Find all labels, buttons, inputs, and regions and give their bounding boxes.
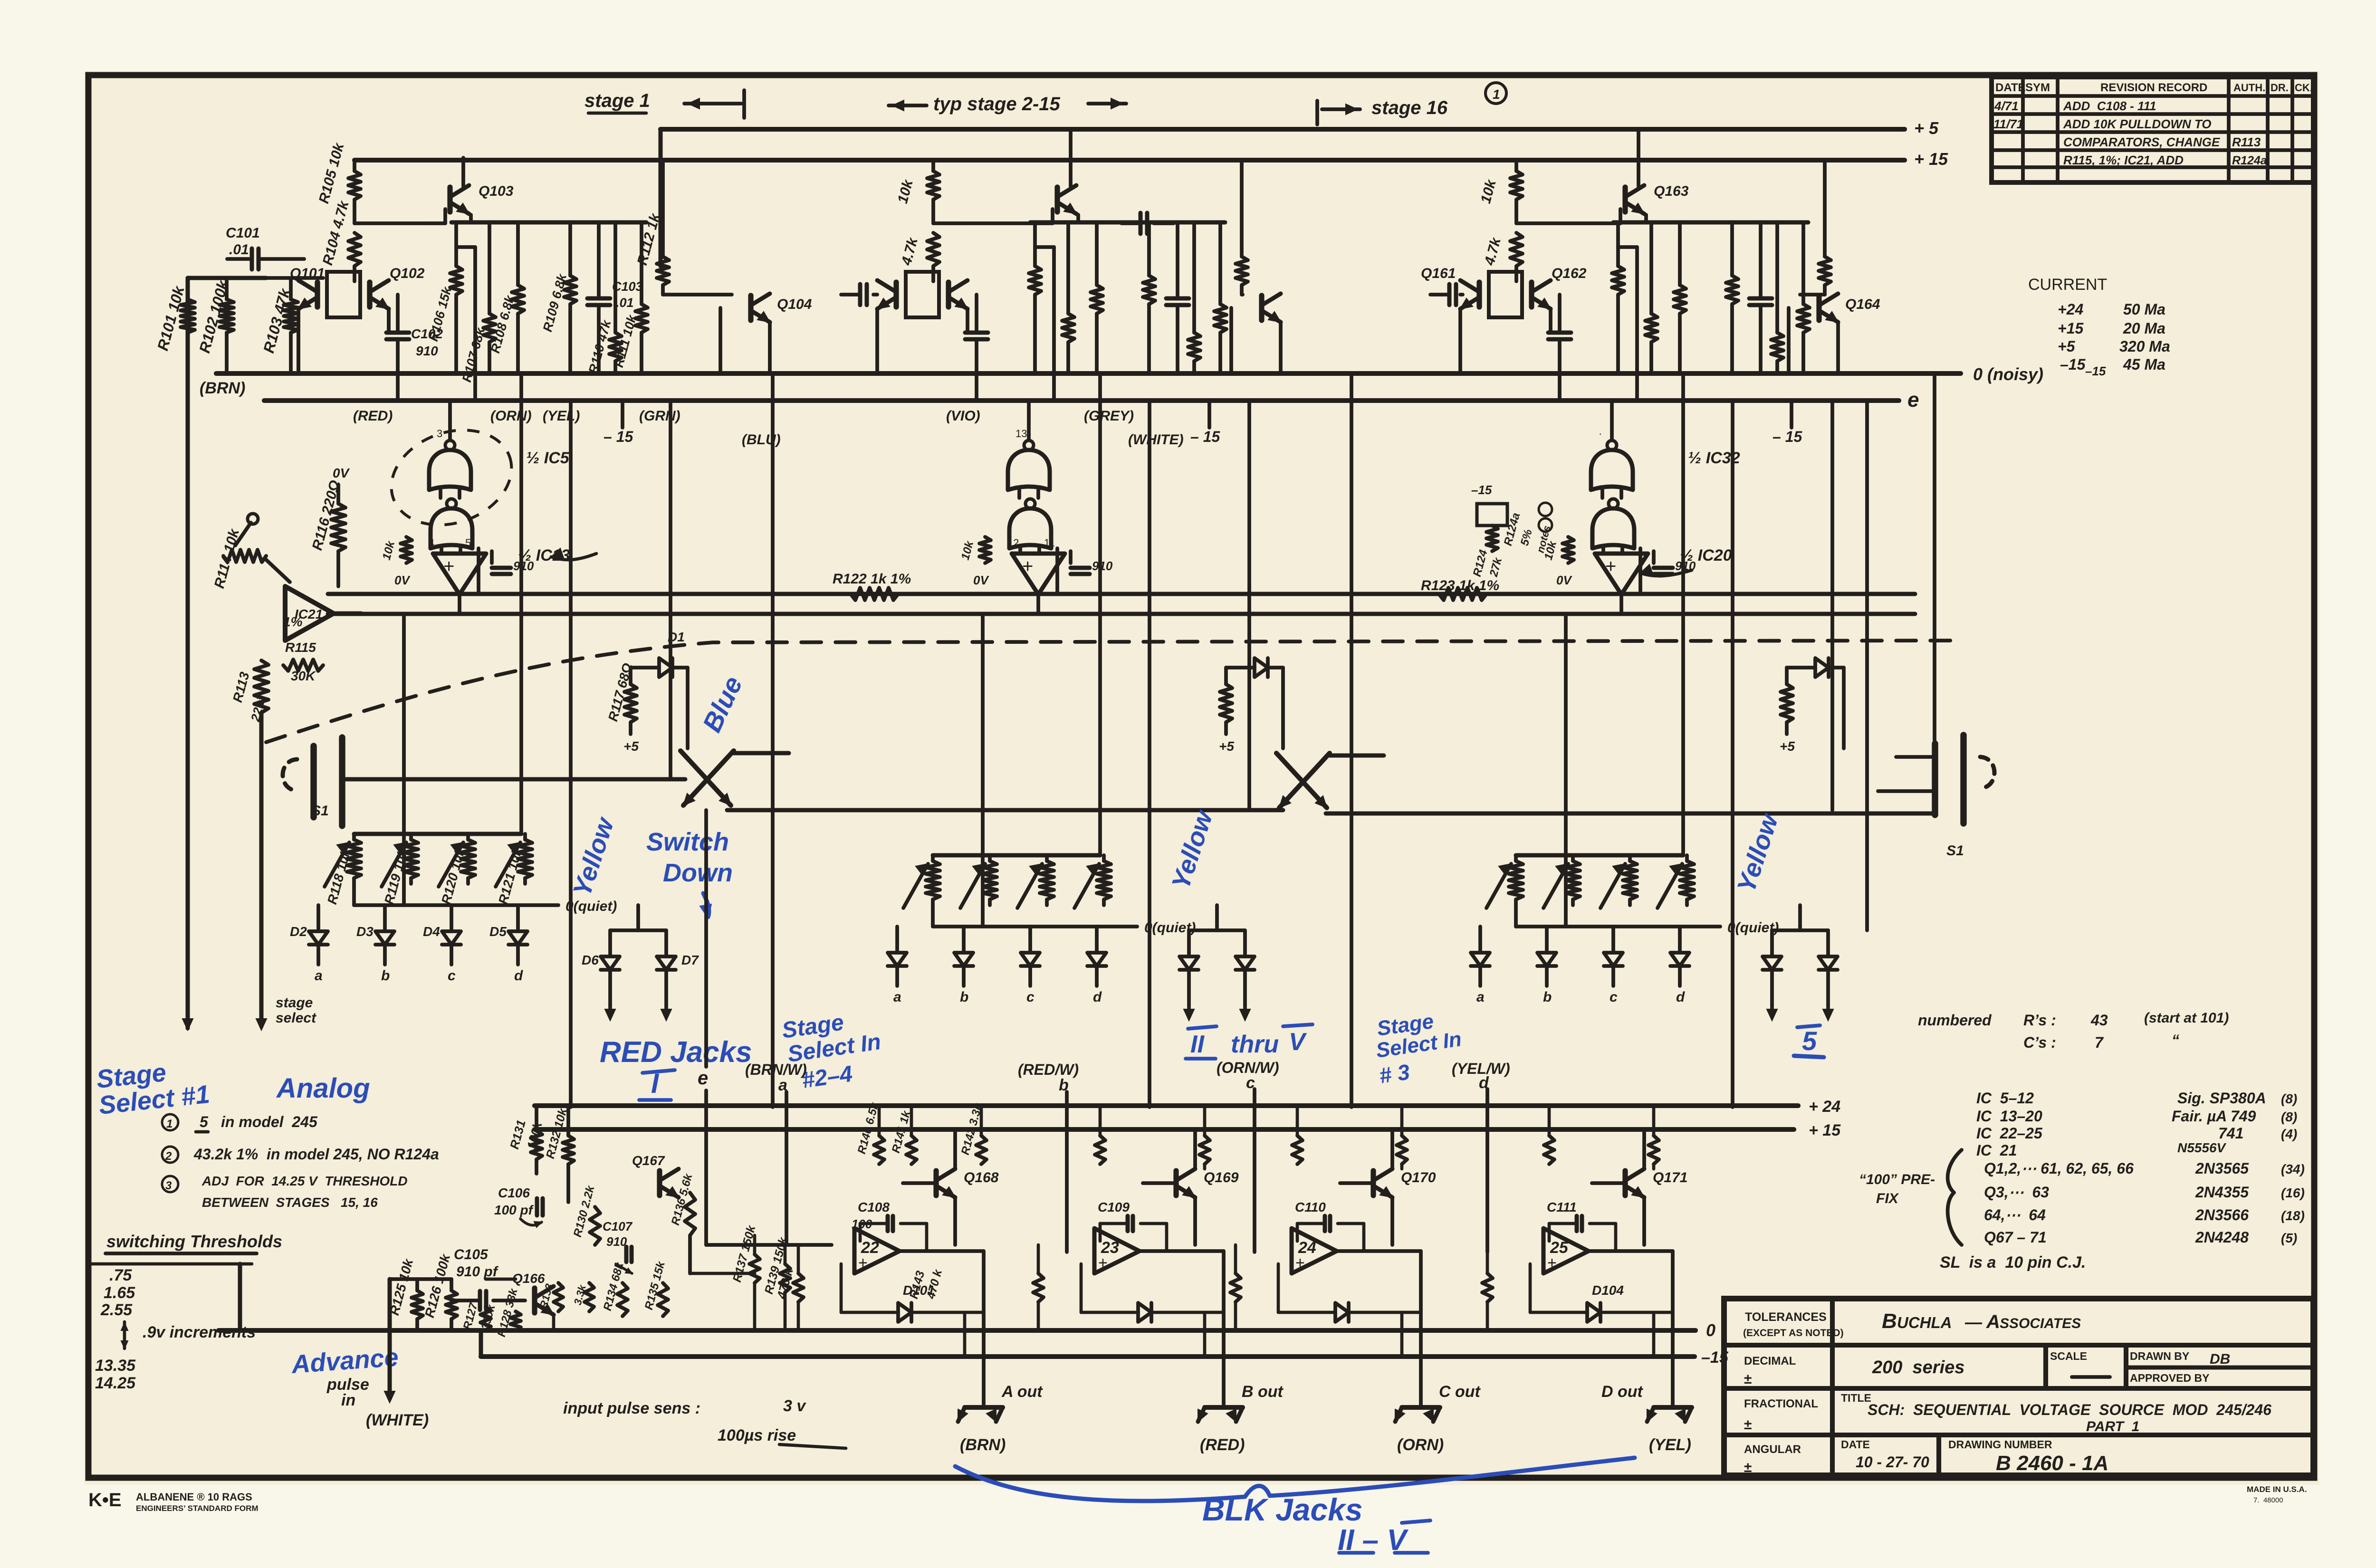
- svg-text:stage 16: stage 16: [1371, 97, 1448, 118]
- svg-text:30K: 30K: [291, 669, 316, 683]
- resistor input channel D: [1482, 1245, 1493, 1330]
- label -15 stage2: [1190, 401, 1220, 445]
- svg-text:0V: 0V: [394, 573, 411, 587]
- wire long vertical C stage1: [669, 401, 672, 779]
- title block: [1724, 1299, 2313, 1475]
- svg-text:in: in: [341, 1391, 355, 1409]
- svg-text:Q1,2,⋯ 61, 62, 65, 66: Q1,2,⋯ 61, 62, 65, 66: [1984, 1160, 2134, 1177]
- resistor R122 1k 1%: [833, 571, 911, 600]
- wire (BRN) input line: [188, 278, 266, 1026]
- capacitor C111 channel D: [1547, 1200, 1616, 1251]
- svg-text:3: 3: [437, 428, 442, 440]
- note stage 16 heading: [1317, 97, 1448, 124]
- resistor R131 100k: [507, 1106, 545, 1174]
- svg-text:+: +: [1605, 556, 1616, 577]
- net 0(noisy) bus: [216, 364, 2106, 384]
- svg-text:43: 43: [2090, 1012, 2108, 1029]
- wire channel A input tie: [706, 1243, 832, 1247]
- svg-text:ALBANENE ® 10 RAGS: ALBANENE ® 10 RAGS: [136, 1491, 252, 1503]
- wire color labels stage1: [353, 408, 781, 448]
- resistor R105 10k stage2: [895, 160, 939, 223]
- blue note Yellow stage3: [1732, 810, 1784, 896]
- transistor Q170: [1340, 1129, 1436, 1245]
- potentiometers stage3: [1486, 855, 1694, 908]
- svg-text:–15: –15: [2085, 364, 2106, 378]
- svg-text:Q163: Q163: [1654, 183, 1689, 199]
- net +24 bus: [535, 1098, 1840, 1116]
- svg-text:IC 13–20: IC 13–20: [1976, 1108, 2042, 1125]
- diode feedback channel C: [1278, 1264, 1421, 1322]
- comparator (&#189; IC20) stage3: [1595, 546, 1732, 614]
- svg-text:C out: C out: [1439, 1383, 1481, 1401]
- svg-text:1: 1: [1493, 87, 1500, 102]
- svg-text:d: d: [514, 968, 523, 984]
- resistor R112 1k stage2: [1236, 160, 1248, 295]
- comparator IC21: [285, 586, 334, 641]
- transistor Q102: [370, 266, 425, 309]
- svg-text:a: a: [893, 989, 901, 1005]
- svg-text:input pulse sens :: input pulse sens :: [563, 1399, 700, 1417]
- wire minus15 tie channel A: [963, 1312, 967, 1357]
- wire long vertical D stage2: [1350, 373, 1353, 1107]
- svg-text:±: ±: [1744, 1371, 1752, 1387]
- svg-text:Q167: Q167: [632, 1153, 665, 1168]
- svg-text:–15: –15: [1471, 483, 1492, 497]
- svg-text:Q164: Q164: [1845, 296, 1880, 312]
- svg-text:DECIMAL: DECIMAL: [1744, 1355, 1796, 1367]
- resistor 68k stage2: [1062, 222, 1074, 373]
- transistor Q167: [632, 1153, 679, 1197]
- capacitor C103 .01 stage1: [587, 222, 643, 373]
- svg-text:Switch: Switch: [646, 828, 729, 856]
- resistor R127 330k: [461, 1301, 498, 1331]
- resistor R136 5.6k: [669, 1172, 695, 1273]
- svg-text:Q103: Q103: [479, 183, 514, 199]
- svg-text:(BRN): (BRN): [960, 1436, 1006, 1454]
- svg-text:2N3565: 2N3565: [2195, 1160, 2249, 1177]
- wire op-amp output channel C: [1337, 1251, 1421, 1405]
- svg-text:(BLU): (BLU): [742, 432, 781, 448]
- wire stage3 tail vertical: [1865, 401, 1869, 930]
- svg-text:numbered: numbered: [1918, 1012, 1992, 1029]
- resistor bias pair channel D: [1544, 1106, 1659, 1169]
- blue note Blue: [697, 671, 748, 736]
- svg-text:C109: C109: [1098, 1200, 1130, 1214]
- svg-text:+: +: [1547, 1254, 1557, 1272]
- label (BRN): [200, 379, 245, 397]
- svg-text:select: select: [276, 1010, 317, 1026]
- svg-text:RED Jacks: RED Jacks: [600, 1036, 752, 1069]
- ladder output rail 0(quiet) stage3: [1516, 905, 1779, 936]
- svg-text:(RED): (RED): [1200, 1436, 1245, 1454]
- output jack C out: [1395, 1383, 1481, 1454]
- resistor 15k stage3: [1612, 222, 1624, 373]
- arrow to IC13: [551, 548, 596, 560]
- select diodes a-d stage1: [290, 905, 527, 984]
- svg-text:# 3: # 3: [1378, 1059, 1411, 1088]
- label pulse in: [326, 1376, 369, 1409]
- capacitor C110 channel C: [1295, 1200, 1364, 1251]
- resistor R132 10k: [544, 1106, 574, 1202]
- jack diodes pair stage1: [582, 905, 699, 1021]
- svg-text:SCALE: SCALE: [2050, 1350, 2087, 1362]
- svg-text:(EXCEPT AS NOTED): (EXCEPT AS NOTED): [1743, 1328, 1844, 1339]
- wire a drop (BRN/W): [745, 1061, 807, 1245]
- flip-flop cross-coupling box: [327, 272, 360, 317]
- label -15 stage1: [604, 401, 633, 445]
- net comparator bus upper: [328, 592, 1915, 596]
- resistor 3.3k small: [572, 1283, 594, 1311]
- potentiometers R118-R121 10k stage1: [325, 834, 532, 887]
- svg-text:(RED): (RED): [353, 408, 393, 424]
- resistor R112 1k stage3: [1819, 160, 1831, 295]
- transistor Q169: [1143, 1129, 1239, 1245]
- svg-text:DATE: DATE: [1841, 1438, 1870, 1451]
- svg-text:e: e: [1907, 388, 1919, 411]
- svg-text:D4: D4: [423, 924, 440, 939]
- svg-text:a: a: [1476, 989, 1485, 1005]
- ladder output rail 0(quiet) stage1: [354, 884, 617, 914]
- svg-text:C107: C107: [603, 1219, 633, 1233]
- svg-text:Q102: Q102: [390, 266, 425, 281]
- wire minus15 tie channel C: [1400, 1312, 1404, 1357]
- capacitor C102 910 stage2: [965, 295, 988, 401]
- svg-text:1.65: 1.65: [104, 1284, 135, 1302]
- svg-text:100 pf: 100 pf: [494, 1203, 534, 1217]
- svg-text:(34): (34): [2281, 1162, 2305, 1176]
- svg-text:14.25: 14.25: [95, 1374, 136, 1392]
- op-amp IC23 channel B: [1094, 1228, 1140, 1273]
- svg-text:(VIO): (VIO): [946, 408, 980, 424]
- svg-text:Q168: Q168: [964, 1170, 999, 1186]
- svg-text:0V: 0V: [973, 573, 989, 587]
- svg-text:10 - 27- 70: 10 - 27- 70: [1856, 1453, 1929, 1471]
- resistor R124 27k note: [1471, 483, 1553, 579]
- svg-text:+: +: [1098, 1254, 1108, 1272]
- svg-text:741: 741: [2218, 1125, 2243, 1142]
- resistor R106 15k stage1: [426, 222, 462, 373]
- svg-text:ADD 10K PULLDOWN TO: ADD 10K PULLDOWN TO: [2063, 117, 2212, 131]
- svg-text:+5: +5: [1219, 739, 1234, 754]
- svg-text:+: +: [1295, 1254, 1305, 1272]
- resistor R112 1k stage1: [634, 160, 669, 295]
- svg-text:b: b: [1059, 1076, 1069, 1094]
- svg-text:CURRENT: CURRENT: [2028, 276, 2107, 294]
- svg-text:C105: C105: [454, 1247, 489, 1262]
- wire collector node stage2: [933, 209, 1053, 223]
- svg-text:·: ·: [1599, 428, 1602, 440]
- svg-text:2: 2: [165, 1150, 172, 1163]
- transistor pair Q161/Q162 stage3: [1421, 266, 1587, 373]
- svg-text:13.35: 13.35: [95, 1357, 136, 1375]
- svg-text:R113: R113: [2232, 135, 2261, 149]
- svg-text:d: d: [1676, 989, 1685, 1005]
- revision record table: [1992, 77, 2313, 182]
- svg-text:910: 910: [416, 344, 438, 358]
- resistor R135 15k: [642, 1259, 668, 1316]
- svg-text:A: A: [1986, 1311, 2000, 1332]
- svg-text:Q3,⋯ 63: Q3,⋯ 63: [1984, 1184, 2049, 1201]
- svg-text:B 2460 - 1A: B 2460 - 1A: [1996, 1452, 2108, 1475]
- svg-text:910: 910: [513, 559, 534, 573]
- transistor Q168: [903, 1129, 999, 1245]
- wire IC21 out: [334, 612, 361, 616]
- resistor R123 1k 1%: [1421, 578, 1499, 600]
- crossover switch stage2: [1276, 753, 1384, 808]
- svg-text:Q104: Q104: [777, 296, 812, 312]
- wire long vertical B stage3: [1731, 401, 1734, 1107]
- wire op-amp output channel B: [1140, 1251, 1224, 1405]
- svg-text:0: 0: [1706, 1320, 1715, 1340]
- resistor R107 68k stage1: [460, 222, 496, 384]
- op-amp IC24 channel C: [1292, 1228, 1337, 1273]
- svg-text:CK.: CK.: [2295, 82, 2313, 94]
- net -15 lower bus: [481, 1330, 1729, 1367]
- net comparator bus lower: [328, 612, 1915, 616]
- svg-text:D104: D104: [1592, 1283, 1624, 1298]
- capacitor 910 stage1: [492, 551, 534, 574]
- svg-text:DR.: DR.: [2271, 82, 2289, 94]
- svg-text:II: II: [1190, 1031, 1205, 1058]
- wire minus15 tie channel B: [1203, 1312, 1207, 1357]
- transistor Q104 stage1: [663, 294, 812, 373]
- ladder top rail stage2: [933, 853, 1100, 858]
- nor gate A (&#189; IC5) stage1: [429, 401, 570, 498]
- svg-text:7: 7: [2095, 1034, 2104, 1051]
- note input pulse sens: [563, 1397, 846, 1448]
- wire minus15 tie channel D: [1652, 1312, 1656, 1357]
- svg-text:(16): (16): [2281, 1186, 2305, 1200]
- svg-text:BETWEEN STAGES 15, 16: BETWEEN STAGES 15, 16: [202, 1195, 378, 1210]
- net 0 lower bus: [219, 1320, 1715, 1340]
- svg-text:D5: D5: [489, 924, 507, 939]
- svg-text:+ 5: + 5: [1914, 118, 1939, 138]
- svg-text:S1: S1: [311, 803, 329, 819]
- wire long vertical C stage2: [1247, 401, 1251, 810]
- svg-text:stage: stage: [276, 995, 313, 1011]
- blue note 5bar: [1794, 1025, 1824, 1057]
- net switch bus segment 3: [1326, 812, 1933, 816]
- svg-text:0(quiet): 0(quiet): [565, 899, 617, 914]
- blue note Yellow stage1: [567, 813, 620, 900]
- svg-text:ADD C108 - 111: ADD C108 - 111: [2063, 99, 2156, 113]
- resistor R133: [537, 1282, 563, 1311]
- wire long vertical E stage2: [981, 614, 985, 927]
- svg-text:b: b: [1543, 989, 1552, 1005]
- svg-text:R’s :: R’s :: [2023, 1012, 2056, 1029]
- svg-text:TITLE: TITLE: [1841, 1392, 1871, 1404]
- resistor R140 6.5k: [855, 1100, 884, 1164]
- wire d drop (YEL/W): [1452, 1060, 1510, 1252]
- svg-text:switching Thresholds: switching Thresholds: [106, 1232, 282, 1251]
- resistor input channel B: [1033, 1245, 1044, 1330]
- svg-text:D out: D out: [1601, 1383, 1644, 1401]
- select diodes a-d stage3: [1471, 927, 1689, 1005]
- svg-text:c: c: [1246, 1074, 1255, 1092]
- svg-text:ENGINEERS’ STANDARD FORM: ENGINEERS’ STANDARD FORM: [136, 1504, 259, 1513]
- blue note Stage Select In 3: [1375, 1010, 1463, 1088]
- note current table: [2028, 276, 2170, 373]
- capacitor 910 stage2: [1071, 551, 1113, 574]
- svg-text:+: +: [858, 1254, 868, 1272]
- diode + resistor select stage3: [1780, 658, 1844, 754]
- svg-text:5: 5: [200, 1113, 209, 1130]
- svg-text:(ORN): (ORN): [490, 408, 532, 424]
- svg-text:stage 1: stage 1: [584, 90, 650, 111]
- svg-text:– 15: – 15: [604, 428, 633, 445]
- net switch bus segment 1: [345, 777, 685, 782]
- svg-text:+ 15: + 15: [1914, 149, 1948, 169]
- svg-text:c: c: [448, 968, 456, 984]
- svg-text:Q161: Q161: [1421, 266, 1456, 281]
- wire stage node line stage2: [1030, 215, 1225, 222]
- resistor R142 3.3k: [959, 1101, 987, 1164]
- wire long vertical E stage3: [1564, 614, 1568, 927]
- output jack B out: [1198, 1383, 1284, 1454]
- capacitor C108 channel A: [852, 1200, 927, 1251]
- resistor R126 100k: [417, 1252, 457, 1330]
- resistor 10k comp stage2: [959, 537, 991, 587]
- wire stage select line: [256, 713, 267, 1030]
- note switching thresholds: [88, 1232, 282, 1392]
- dashed stage-select trace: [266, 641, 1963, 742]
- net +15 lower bus: [535, 1121, 1841, 1139]
- svg-text:(BRN): (BRN): [200, 379, 245, 397]
- svg-text:64,⋯ 64: 64,⋯ 64: [1984, 1206, 2046, 1224]
- blue note RED Jacks I: [600, 1036, 752, 1100]
- svg-text:±: ±: [1744, 1460, 1752, 1475]
- svg-text:7. 48000: 7. 48000: [2253, 1496, 2283, 1504]
- transistor Q103 stage1: [450, 158, 514, 214]
- resistor R101 10k: [154, 283, 195, 352]
- resistor R116 220&#937;: [309, 466, 350, 586]
- blue note Yellow stage2: [1166, 806, 1218, 893]
- svg-text:Q162: Q162: [1552, 266, 1587, 281]
- ladder output rail 0(quiet) stage2: [933, 905, 1196, 936]
- svg-text:(ORN): (ORN): [1397, 1436, 1444, 1454]
- resistor R102 100k: [196, 277, 234, 373]
- crossover switch stage1: [680, 751, 789, 805]
- diode D101 channel A: [841, 1264, 984, 1322]
- svg-text:ANGULAR: ANGULAR: [1744, 1443, 1801, 1456]
- comparator (&#189; IC13) stage1: [433, 546, 570, 614]
- resistor R143 470k: [907, 1268, 945, 1301]
- svg-text:13: 13: [1016, 428, 1027, 440]
- wire long vertical A stage1: [519, 373, 523, 834]
- made-in-usa note: [2247, 1485, 2307, 1504]
- resistor 15k stage2: [1029, 222, 1041, 373]
- transistor Q101: [290, 266, 325, 309]
- svg-text:SYM: SYM: [2025, 81, 2050, 94]
- wire S1R stubs: [1878, 757, 1935, 791]
- svg-text:2N4355: 2N4355: [2195, 1184, 2249, 1201]
- svg-text:D3: D3: [356, 924, 374, 939]
- resistor R105 10k stage1: [316, 141, 361, 223]
- arrow to IC20: [1640, 564, 1692, 576]
- svg-text:12: 12: [1007, 537, 1019, 549]
- op-amp IC22 channel A: [854, 1228, 900, 1273]
- comparator (IC) stage2: [1012, 554, 1065, 614]
- svg-text:Q170: Q170: [1401, 1170, 1436, 1186]
- K+E paper logo: [88, 1490, 259, 1513]
- wire op-amp output channel A: [900, 1251, 984, 1405]
- connector S1 left: [283, 737, 342, 826]
- wire collector node stage1: [354, 209, 445, 223]
- resistor bias pair channel C: [1292, 1106, 1407, 1169]
- svg-text:4/71: 4/71: [1994, 99, 2019, 113]
- capacitor C105 910pf: [451, 1247, 525, 1310]
- blue note Advance: [290, 1343, 400, 1379]
- resistor R110 47k stage2: [1188, 222, 1200, 373]
- resistor 6.8k stage2: [1143, 222, 1155, 373]
- wire stage node line stage3: [1613, 215, 1808, 222]
- svg-text:20 Ma: 20 Ma: [2123, 320, 2165, 337]
- nor gate B stage1: [431, 499, 479, 594]
- svg-text:– 15: – 15: [1772, 428, 1802, 445]
- svg-text:2.55: 2.55: [100, 1301, 133, 1319]
- wire collector node stage3: [1516, 209, 1620, 223]
- svg-text:DB: DB: [2210, 1351, 2230, 1367]
- svg-text:200 series: 200 series: [1872, 1358, 1964, 1377]
- svg-text:C110: C110: [1295, 1200, 1326, 1214]
- svg-text:5: 5: [1802, 1026, 1817, 1056]
- svg-text:d: d: [1479, 1074, 1489, 1092]
- svg-text:c: c: [1610, 989, 1618, 1005]
- svg-text:B: B: [1882, 1310, 1897, 1333]
- blue note Stage Select In 2-4: [780, 1010, 882, 1093]
- resistor R125 10k: [387, 1257, 423, 1330]
- wire long vertical A stage3: [1681, 373, 1685, 855]
- wire lower cluster ties: [486, 1279, 554, 1330]
- svg-text:SL is a 10 pin C.J.: SL is a 10 pin C.J.: [1940, 1253, 2086, 1272]
- resistor R111 10k stage1: [612, 222, 648, 373]
- wire e drop: [698, 810, 708, 1245]
- resistor R104 4.7k stage1: [320, 199, 361, 281]
- diode D104 channel D: [1530, 1264, 1673, 1322]
- svg-text:2N3566: 2N3566: [2195, 1206, 2249, 1224]
- ladder labels stage1: [325, 846, 525, 906]
- svg-text:(WHITE): (WHITE): [1128, 432, 1184, 448]
- svg-text:Q166: Q166: [512, 1271, 545, 1286]
- svg-text:3: 3: [165, 1179, 172, 1192]
- op-amp IC25 channel D: [1543, 1228, 1589, 1273]
- svg-text:+15: +15: [2058, 320, 2084, 337]
- svg-text:C108: C108: [858, 1200, 890, 1214]
- svg-text:+: +: [443, 556, 454, 577]
- svg-text:+5: +5: [623, 739, 639, 754]
- svg-text:(start at 101): (start at 101): [2144, 1010, 2229, 1026]
- resistor R110 47k stage3: [1771, 222, 1783, 373]
- svg-text:A out: A out: [1001, 1383, 1043, 1401]
- note numbered R C counts: [1918, 1010, 2229, 1051]
- svg-text:(18): (18): [2281, 1208, 2305, 1223]
- svg-text:D7: D7: [681, 953, 699, 967]
- svg-text:(4): (4): [2281, 1127, 2297, 1141]
- arrow stage-1 extent: [684, 90, 744, 118]
- resistor 6.8k stage3: [1674, 222, 1686, 373]
- transistor Q166: [512, 1271, 554, 1315]
- net +5 bus: [661, 118, 1939, 138]
- coupling capacitor stage3 left: [1430, 284, 1463, 305]
- svg-text:50 Ma: 50 Ma: [2123, 301, 2165, 318]
- svg-text:c: c: [1026, 989, 1035, 1005]
- wire pair emitters: [298, 309, 399, 373]
- nor gate A (IC) stage2: [1008, 401, 1050, 498]
- terminal stage-select arrow a: [182, 1017, 193, 1030]
- capacitor 910 stage3: [1654, 551, 1696, 574]
- wire +5 left drop: [659, 129, 663, 266]
- svg-text:COMPARATORS, CHANGE: COMPARATORS, CHANGE: [2063, 135, 2220, 149]
